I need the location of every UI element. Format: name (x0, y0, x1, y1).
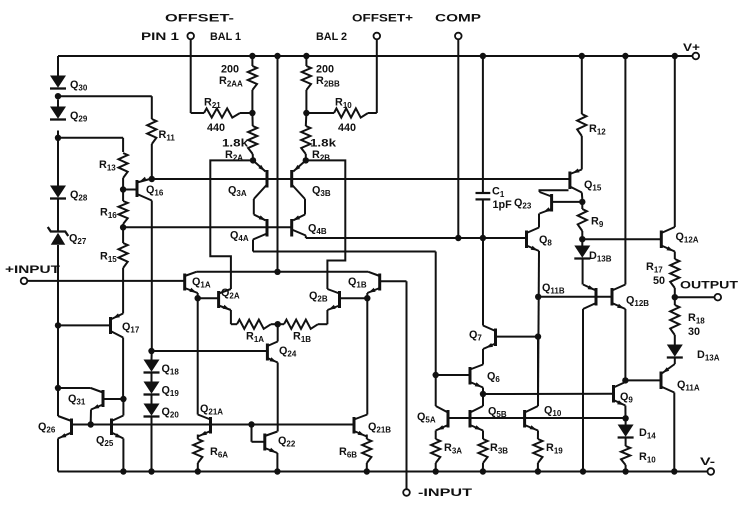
node PIN 1 terminal (141, 31, 194, 43)
wire left bias chain (55, 56, 61, 416)
transistor Q23 (514, 190, 569, 213)
wire COMP drop (455, 39, 461, 241)
node V+ terminal (683, 42, 700, 59)
wire V+ rail (58, 53, 693, 59)
svg-text:V+: V+ (683, 42, 700, 54)
transistor Q21A (198, 403, 224, 437)
wire Q4 base line (123, 226, 292, 228)
wire Q24 base (152, 350, 268, 352)
resistor R13 (99, 153, 128, 187)
wire Q9 base line (483, 393, 614, 395)
wire Q12B emitter (624, 309, 626, 380)
resistor R15 (100, 230, 128, 268)
transistor Q11A (661, 364, 700, 393)
svg-text:1pF: 1pF (493, 199, 513, 211)
transistor Q1B (348, 272, 380, 296)
transistor Q7 (469, 326, 496, 350)
transistor Q3B (292, 160, 331, 220)
wire Q11B collector (582, 309, 584, 472)
transistor Q11B (542, 282, 596, 309)
resistor R2AA (219, 56, 257, 113)
wire Q2A base (198, 297, 219, 299)
diode D13A (667, 345, 720, 363)
transistor Q5B (470, 394, 507, 431)
wire Q22 emitter (276, 453, 278, 472)
resistor R21 (191, 97, 253, 135)
transistor Q22 (265, 432, 296, 454)
capacitor C1 (476, 186, 513, 212)
diode D13B (574, 239, 611, 263)
wire Q1A emitter line (197, 298, 199, 414)
node BAL 2 label (316, 31, 347, 43)
wire Q5 base line (448, 417, 626, 419)
resistor R2B (301, 113, 337, 163)
diode Q29 (50, 107, 88, 124)
transistor Q15 (570, 169, 602, 200)
resistor R12 (577, 56, 606, 170)
transistor Q8 (527, 228, 553, 252)
wire Q8 emitter line (535, 251, 541, 404)
wire Q31 collector (58, 387, 91, 389)
wire D13A-Q11A (674, 358, 676, 364)
node -INPUT terminal (403, 487, 472, 499)
wire Q12A base line (582, 238, 661, 240)
wire Q23 base (552, 201, 583, 203)
svg-text:200: 200 (316, 64, 334, 76)
wire Q11B base (538, 296, 612, 298)
wire Q4B collector line (306, 235, 527, 241)
node Q26 base node (88, 421, 94, 427)
resistor R10 bottom (621, 437, 656, 471)
resistor R16 (100, 192, 128, 224)
wire Q4A collector (253, 252, 436, 407)
node D14 top (622, 415, 628, 421)
zener Q27 (48, 227, 87, 246)
svg-text:PIN 1: PIN 1 (141, 31, 179, 43)
resistor R6B (339, 435, 371, 472)
transistor Q6 (470, 365, 500, 395)
wire +INPUT (27, 280, 184, 282)
resistor R1A (231, 320, 278, 345)
resistor R2A (222, 113, 257, 163)
node R1 center (275, 321, 281, 327)
node R16-R15 (120, 224, 126, 230)
node OFFSET- label (165, 13, 235, 25)
svg-text:COMP: COMP (435, 13, 481, 25)
svg-text:BAL 2: BAL 2 (316, 31, 347, 43)
transistor Q1A (185, 272, 211, 296)
svg-text:30: 30 (688, 326, 700, 338)
node R13-Q16 (120, 186, 126, 192)
svg-text:OUTPUT: OUTPUT (680, 280, 739, 292)
wire Q11A base (625, 379, 661, 381)
svg-text:-INPUT: -INPUT (418, 487, 473, 499)
transistor Q3A (228, 160, 267, 220)
node R2AA bottom (249, 110, 255, 116)
transistor Q17 (58, 313, 140, 337)
transistor Q12B (612, 285, 649, 310)
transistor Q21B (354, 415, 391, 437)
node COMP terminal (435, 13, 481, 40)
resistor R18 (670, 297, 705, 344)
node V- terminal (700, 456, 716, 475)
transistor Q24 (267, 324, 296, 362)
wire Q7 emitter-Q6 collector (482, 349, 484, 365)
resistor R2BB (302, 56, 340, 113)
node OUTPUT node (672, 294, 678, 300)
resistor R1B (278, 320, 328, 345)
node Q11A base node (622, 377, 628, 383)
wire Q2B collector (306, 160, 346, 289)
svg-text:+INPUT: +INPUT (5, 264, 61, 276)
wire diode chain (151, 349, 153, 472)
wire Q7 base (496, 333, 542, 339)
node Q2B base node (364, 295, 370, 301)
transistor Q4A (230, 215, 267, 251)
node R2BB bottom (303, 110, 309, 116)
svg-text:OFFSET-: OFFSET- (165, 13, 235, 25)
diode Q19 (144, 382, 180, 399)
svg-text:BAL 1: BAL 1 (210, 31, 241, 43)
resistor R17 (646, 252, 679, 298)
transistor Q31 (68, 388, 123, 423)
transistor Q5A (417, 406, 448, 431)
node +INPUT terminal (5, 264, 61, 284)
wire -INPUT riser (380, 281, 407, 489)
resistor R11 (147, 96, 175, 176)
node R11-Q16 emitter (149, 176, 155, 182)
wire Q24 emitter (277, 363, 279, 432)
wire center V+ line (277, 56, 279, 272)
node R2A bottom (250, 157, 256, 163)
resistor R10 top (306, 97, 376, 135)
transistor Q2A (219, 287, 240, 324)
svg-text:1.8k: 1.8k (310, 138, 337, 150)
resistor R6A (193, 435, 228, 472)
wire D13B-Q11B (582, 258, 584, 284)
wire Q2A collector (210, 160, 253, 289)
resistor R9 (578, 202, 604, 239)
node R9 bottom (579, 236, 585, 242)
diode Q30 (50, 76, 88, 93)
node Q15 emitter node (579, 199, 585, 205)
svg-text:50: 50 (653, 275, 665, 287)
wire Q1B emitter line (366, 298, 368, 414)
transistor Q25 (96, 399, 123, 472)
wire Q6 base (436, 374, 470, 376)
transistor Q26 (38, 416, 72, 472)
wire Q3 base line (152, 178, 570, 180)
resistor R19 (533, 431, 563, 472)
node Q6 emitter node (480, 391, 486, 397)
wire Q17 collector (120, 338, 126, 403)
transistor Q4B (292, 215, 327, 238)
diode Q20 (144, 404, 180, 420)
svg-text:V-: V- (700, 456, 716, 468)
node BAL 1 label (210, 31, 241, 43)
transistor Q2B (309, 289, 340, 324)
wire OFFSET+ drop (376, 39, 378, 113)
wire C1 top (482, 56, 484, 193)
wire Q8 collector (538, 214, 540, 228)
wire Q26 base line (72, 421, 355, 427)
transistor Q12A (661, 227, 699, 252)
wire Q7 collector (482, 238, 484, 326)
diode D14 (618, 418, 657, 440)
node Q24 base node (148, 348, 154, 354)
svg-text:200: 200 (221, 64, 239, 76)
diode Q28 (50, 186, 88, 203)
wire PIN1 drop (190, 39, 192, 113)
transistor Q16 (123, 177, 164, 201)
wire Q22 base (252, 425, 265, 442)
resistor R3B (478, 431, 508, 472)
wire Q2B base (340, 297, 368, 299)
wire Q1 collector line (196, 269, 368, 275)
wire Q11A collector (673, 393, 675, 472)
wire Q9 emitter (624, 406, 626, 419)
node R2B bottom (303, 157, 309, 163)
wire R15-Q17 (122, 268, 124, 314)
transistor Q9 (614, 382, 634, 406)
svg-text:440: 440 (207, 122, 225, 134)
transistor Q10 (525, 339, 562, 431)
wire V- rail (58, 468, 708, 474)
node Q2A base node (195, 295, 201, 301)
wire Q12B collector (624, 56, 626, 285)
wire Q16 collector (151, 201, 153, 350)
svg-text:1.8k: 1.8k (222, 138, 249, 150)
resistor R3A (431, 431, 462, 472)
wire OUTPUT (675, 280, 739, 301)
node OFFSET+ terminal (352, 13, 413, 40)
svg-text:OFFSET+: OFFSET+ (352, 13, 413, 25)
svg-text:440: 440 (338, 122, 356, 134)
wire Q29-R13 (58, 138, 123, 152)
diode Q18 (144, 360, 180, 377)
node Q6 base node (433, 372, 439, 378)
wire Q30-R11 (58, 95, 152, 97)
wire Q12A collector (674, 56, 676, 227)
wire C1 bottom (482, 199, 484, 238)
